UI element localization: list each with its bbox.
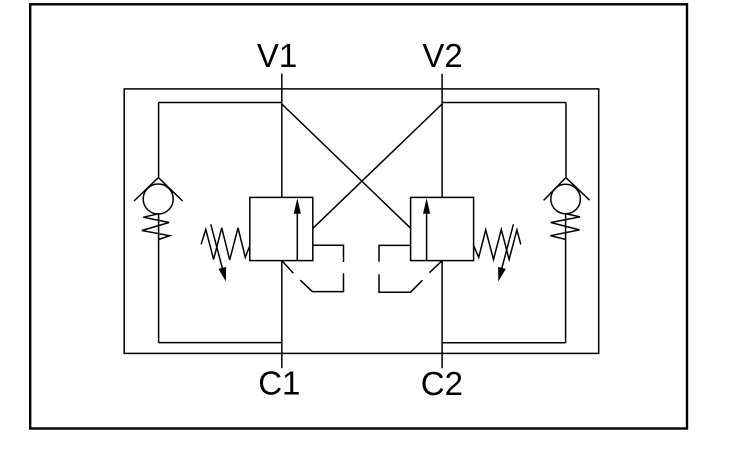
pilot line V1 to right valve (crossing diagonal): [282, 104, 411, 228]
svg-text:C2: C2: [421, 365, 463, 402]
CB1 spring adjustment arrow shaft: [211, 224, 223, 268]
pilot line V2 to left valve (crossing diagonal): [313, 104, 442, 228]
CB2 pilot dashed segment 2: [379, 274, 422, 292]
wire bottom branch right check to C2 line: [442, 342, 565, 344]
check valve CV2 spring: [550, 214, 580, 240]
CB1 spring adjustment arrow head: [218, 267, 226, 282]
svg-text:V2: V2: [422, 37, 462, 74]
wire V1 vertical lower segment (to C1): [281, 261, 283, 369]
wire bottom branch left check to C1 line: [159, 342, 282, 344]
CB1 pilot dashed segment 2: [300, 273, 343, 291]
check valve CV1 ball: [143, 184, 173, 214]
wire left check valve lower lead: [158, 214, 160, 343]
counterbalance valve CB2 body: [411, 197, 474, 260]
wire V1 vertical upper segment: [281, 74, 283, 198]
check valve CV2 seat left arm: [544, 178, 566, 201]
wire top branch to left check valve: [159, 102, 282, 104]
CB2 spring adjustment arrow head: [498, 267, 506, 282]
wire V2 vertical lower segment (to C2): [441, 261, 443, 369]
CB1 pilot tap solid segment: [313, 245, 344, 262]
wire right check valve lower lead: [565, 214, 567, 343]
svg-text:C1: C1: [258, 365, 300, 402]
wire V2 vertical upper segment: [441, 74, 443, 198]
valve body envelope (inner rectangle): [124, 89, 599, 354]
CB2 flow arrow head: [423, 198, 430, 214]
outer border frame: [30, 4, 687, 428]
check valve CV2 seat right arm: [566, 178, 590, 201]
svg-text:V1: V1: [257, 37, 297, 74]
CB1 flow arrow head: [294, 198, 301, 214]
check valve CV1 seat right arm: [158, 178, 182, 201]
wire top branch to right check valve: [442, 102, 566, 104]
check valve CV1 seat left arm: [134, 178, 158, 201]
CB2 spring: [474, 229, 521, 259]
CB2 pilot dashed segment 3: [429, 261, 442, 273]
CB1 flow arrow shaft: [296, 213, 298, 260]
CB2 spring adjustment arrow shaft: [502, 224, 514, 268]
counterbalance valve CB1 body: [250, 197, 313, 260]
CB1 pilot dashed segment 3: [282, 261, 294, 274]
CB1 spring: [201, 228, 250, 260]
CB2 pilot tap solid segment: [379, 245, 411, 261]
check valve CV1 spring: [142, 214, 170, 240]
CB2 flow arrow shaft: [426, 213, 428, 260]
wire left check valve drop: [158, 103, 160, 178]
wire right check valve drop: [565, 103, 567, 178]
check valve CV2 ball: [551, 184, 581, 214]
